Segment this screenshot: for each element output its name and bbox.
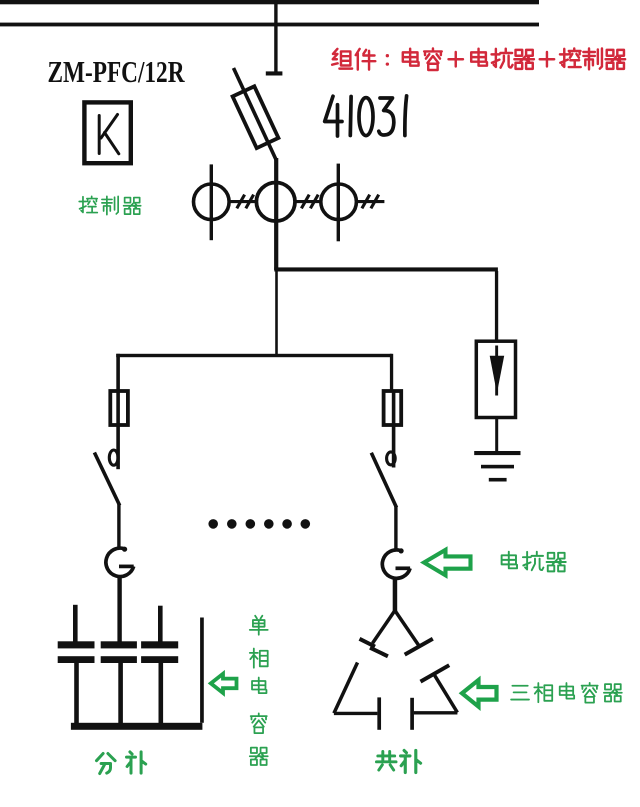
wire: link middle-right with hatches <box>295 195 321 209</box>
ground symbol <box>474 451 520 482</box>
label green: fen bu (individual compensation) <box>97 752 146 774</box>
capacitor bank right riser <box>200 618 204 723</box>
switch blade left <box>94 453 119 506</box>
wire: right stem through fuse <box>392 390 396 468</box>
wire through left instrument <box>210 164 213 240</box>
label green: three-phase capacitor (san xiang dian rong qi) <box>511 683 622 703</box>
wire: right branch drop <box>390 354 393 391</box>
arrow: reactor pointer <box>424 550 471 576</box>
contact hook left <box>109 450 118 465</box>
wire: link left-middle with hatches <box>229 195 257 209</box>
wire: right lower stem to delta <box>393 578 398 611</box>
arrow: three-phase capacitor pointer <box>462 680 497 707</box>
reactor left (arc) <box>106 548 134 576</box>
wire: main riser from busbar <box>274 0 277 72</box>
instrument circle middle <box>256 183 295 222</box>
arrester arrow tail <box>495 346 498 396</box>
reactor left bar <box>119 565 134 569</box>
wire: riser below fuse <box>274 158 278 270</box>
capacitor bank bottom bus <box>71 723 203 730</box>
capacitor C3 plates <box>141 641 178 648</box>
arrester FV box <box>476 341 515 417</box>
delta capacitor: upper-left plates <box>360 639 376 647</box>
arrow: single-phase capacitor pointer <box>211 674 237 693</box>
delta capacitor: lower-right leg <box>434 675 457 713</box>
label green: gong bu (common compensation) <box>376 750 420 772</box>
reactor right (arc) <box>382 550 410 578</box>
label green vertical: single-phase capacitor (dan xiang dian rong qi) <box>250 616 268 765</box>
delta capacitor: bottom side right segment <box>414 711 458 714</box>
busbar top line <box>0 0 539 4</box>
reactor left tip dot <box>122 547 127 552</box>
wire: riser to branch header <box>275 271 278 355</box>
instrument circle left <box>194 184 230 220</box>
wire: stub right of right instrument with hatches <box>357 195 385 209</box>
instrument circle right <box>321 184 357 220</box>
wire: arrester drop <box>495 271 498 342</box>
wire: right mid stem <box>394 506 397 551</box>
fuse left branch <box>110 391 128 425</box>
label red: components list (zu jian : dian rong + dian kang qi + kong zhi qi) <box>332 48 625 70</box>
wire through right instrument <box>337 164 340 242</box>
switch blade right <box>371 453 396 508</box>
wire: left lower stem to capacitor <box>117 576 121 643</box>
wire: branch header horizontal <box>116 354 392 357</box>
delta capacitor: upper-right leg <box>395 611 419 646</box>
controller K box <box>84 102 130 163</box>
fuse FU main (rotated body) <box>233 86 279 148</box>
delta capacitor: upper-left leg <box>373 611 395 644</box>
wire: fuse diagonal blade <box>234 68 277 160</box>
node: riser terminal tick <box>266 71 283 75</box>
delta capacitor: upper-right plates <box>405 639 433 655</box>
controller K letter <box>99 115 119 154</box>
delta capacitor: lower-left leg <box>334 663 358 714</box>
label green: controller (kong zhi qi) <box>79 196 140 214</box>
capacitor C2 plates <box>101 641 137 648</box>
label green: reactor (dian kang qi) <box>502 552 566 572</box>
capacitor bottom leads <box>74 663 79 723</box>
dotted continuation <box>208 519 310 529</box>
contact hook right <box>387 452 396 465</box>
reactor right bar <box>396 566 411 570</box>
wire: left mid stem <box>117 504 120 550</box>
delta capacitor: bottom side left segment <box>334 712 378 715</box>
arrester arrow head <box>490 356 505 393</box>
fuse right branch <box>384 391 402 425</box>
capacitor bank leads top <box>73 605 78 642</box>
wire: branch to arrester (horizontal) <box>274 267 498 271</box>
reactor right tip dot <box>399 548 404 553</box>
delta capacitor: bottom plates <box>377 697 381 729</box>
busbar bottom line <box>0 23 539 27</box>
wire: arrester to ground <box>495 418 498 452</box>
wire: left branch drop <box>116 354 120 469</box>
capacitor C1 plates <box>58 641 95 648</box>
label 41031 <box>325 96 407 136</box>
svg-text:ZM-PFC/12R: ZM-PFC/12R <box>48 54 185 89</box>
